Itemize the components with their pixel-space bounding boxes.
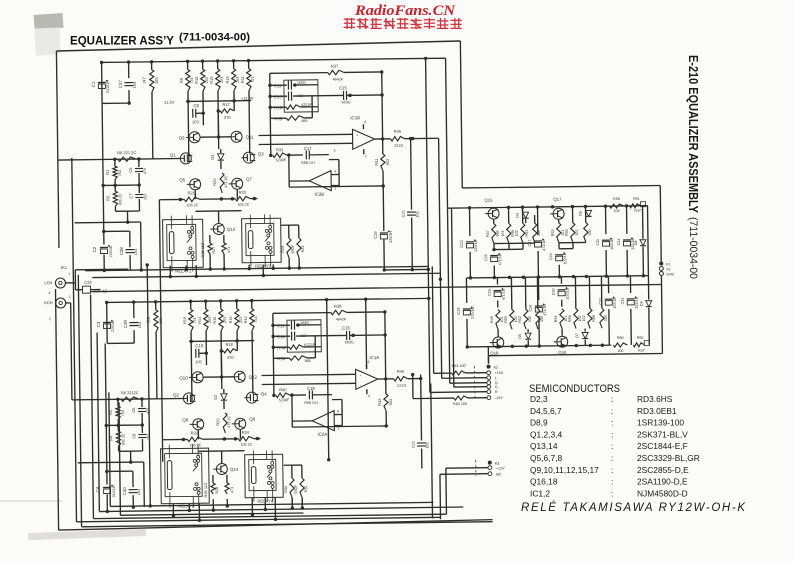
svg-text:Q12: Q12 [249, 375, 258, 380]
svg-text:C13: C13 [274, 94, 282, 99]
svg-text:R23: R23 [239, 190, 247, 195]
svg-text:R63 100: R63 100 [452, 364, 466, 368]
svg-text:RELAY2: RELAY2 [178, 503, 195, 508]
svg-text:C40: C40 [122, 487, 127, 496]
svg-text:-: - [357, 143, 358, 147]
svg-text:Q15: Q15 [484, 198, 493, 203]
svg-text:203: 203 [208, 317, 212, 323]
svg-text:1: 1 [337, 427, 339, 431]
svg-text:C18: C18 [307, 386, 315, 391]
svg-text:Q8: Q8 [249, 417, 255, 422]
svg-text:220/1E: 220/1E [109, 245, 113, 257]
svg-text:969: 969 [496, 230, 500, 236]
svg-text:4642F: 4642F [333, 77, 344, 81]
svg-text::: : [611, 453, 613, 463]
svg-text:R29: R29 [281, 246, 285, 253]
svg-text:C39: C39 [123, 320, 128, 329]
svg-text:R37: R37 [331, 63, 338, 68]
svg-text:R28: R28 [215, 487, 219, 494]
svg-text:+15V: +15V [495, 371, 504, 375]
svg-text:C28: C28 [529, 305, 533, 312]
svg-text:663: 663 [386, 159, 390, 165]
svg-text:102/1E: 102/1E [563, 252, 567, 264]
svg-text:C31: C31 [596, 239, 600, 246]
svg-text:R50: R50 [504, 316, 508, 323]
svg-text:R6 2212C: R6 2212C [121, 390, 139, 395]
svg-text:C19: C19 [373, 231, 378, 239]
svg-text:102/1E: 102/1E [610, 238, 614, 250]
svg-text:663: 663 [389, 399, 393, 405]
svg-text:K221F: K221F [304, 343, 316, 347]
svg-text:C30: C30 [552, 288, 556, 295]
svg-text:203: 203 [239, 317, 243, 323]
svg-text:1: 1 [68, 272, 70, 276]
svg-text:R21: R21 [188, 190, 195, 195]
svg-text:010/1H: 010/1H [112, 485, 116, 497]
svg-text:100: 100 [613, 209, 619, 213]
svg-text:4: 4 [49, 291, 51, 295]
svg-text:330: 330 [540, 316, 544, 322]
svg-text:R22: R22 [191, 430, 198, 435]
svg-text:2SA1190-D,E: 2SA1190-D,E [637, 477, 688, 487]
svg-text:R55: R55 [565, 229, 569, 236]
svg-text:4: 4 [368, 394, 370, 398]
svg-text:104: 104 [138, 322, 142, 328]
svg-text:6: 6 [337, 410, 339, 414]
svg-text:153: 153 [143, 194, 147, 200]
svg-text:6: 6 [364, 120, 366, 124]
svg-text:2SK371-BL,V: 2SK371-BL,V [637, 429, 688, 439]
svg-text:R2: R2 [108, 410, 113, 415]
svg-text:2: 2 [365, 154, 367, 158]
svg-text:105 2C: 105 2C [190, 443, 202, 447]
svg-text:R15: R15 [225, 75, 230, 83]
svg-text::: : [611, 441, 613, 451]
svg-text:471/1E: 471/1E [502, 288, 506, 300]
svg-text:Q3: Q3 [258, 151, 264, 156]
svg-text:MC: MC [496, 473, 502, 477]
svg-text:D9: D9 [640, 301, 644, 306]
svg-text:R47: R47 [638, 349, 645, 353]
svg-text:103: 103 [416, 211, 420, 217]
svg-text:G: G [495, 385, 498, 389]
svg-text:R13: R13 [194, 76, 199, 84]
svg-text:A2: A2 [666, 267, 670, 271]
svg-text:C33: C33 [617, 239, 621, 246]
svg-text:C27: C27 [528, 240, 532, 247]
svg-text:270/1E: 270/1E [471, 306, 475, 318]
svg-text:471/1E: 471/1E [498, 253, 502, 265]
svg-text:R26 113: R26 113 [203, 482, 208, 498]
svg-text:C7: C7 [128, 194, 133, 199]
svg-text:R11: R11 [240, 76, 245, 83]
svg-text:D4: D4 [516, 213, 520, 218]
svg-text:Q16: Q16 [558, 350, 567, 355]
svg-text:D2: D2 [213, 395, 218, 400]
svg-text:751: 751 [193, 317, 197, 323]
svg-text:Q7: Q7 [246, 177, 252, 182]
svg-text:Q18: Q18 [490, 351, 499, 356]
svg-text:Q1,2,3,4: Q1,2,3,4 [530, 429, 562, 439]
svg-text:D7: D7 [575, 333, 579, 338]
svg-text:R16: R16 [229, 316, 233, 323]
svg-text:D2,3: D2,3 [530, 394, 548, 404]
svg-text:RCH: RCH [44, 300, 53, 305]
svg-text:C37: C37 [118, 80, 123, 89]
svg-text:11.3V: 11.3V [164, 100, 174, 105]
svg-text:D8: D8 [634, 240, 638, 245]
svg-text:R60: R60 [617, 336, 624, 340]
svg-text:RD3.0EB1: RD3.0EB1 [637, 406, 677, 416]
svg-text:102/1E: 102/1E [566, 287, 570, 299]
svg-text:R47: R47 [486, 230, 490, 237]
svg-text:Q16,18: Q16,18 [530, 477, 558, 487]
svg-text:K3: K3 [495, 462, 500, 466]
svg-text:103: 103 [195, 359, 202, 364]
svg-text:4221F: 4221F [301, 103, 312, 107]
svg-text:104: 104 [132, 81, 137, 88]
svg-text:471: 471 [230, 487, 234, 493]
svg-text:C38: C38 [119, 247, 124, 256]
svg-text:+: + [357, 133, 359, 137]
svg-text:753: 753 [121, 410, 125, 416]
svg-text:5230F: 5230F [279, 398, 290, 402]
svg-text:470: 470 [143, 168, 147, 174]
svg-text:RELAY3: RELAY3 [255, 263, 272, 268]
svg-text:C34: C34 [621, 298, 625, 305]
svg-text:R27: R27 [212, 247, 216, 254]
svg-text:102: 102 [575, 229, 579, 235]
svg-text:R45: R45 [394, 129, 402, 134]
svg-text:R8: R8 [146, 317, 151, 323]
svg-text:203: 203 [220, 77, 224, 83]
svg-text:8: 8 [367, 360, 369, 364]
svg-text:R34: R34 [277, 345, 285, 350]
svg-text:103: 103 [426, 442, 430, 448]
svg-text:NJM4580D-D: NJM4580D-D [637, 488, 688, 498]
svg-text:R51: R51 [525, 230, 529, 237]
svg-text:RELAY4: RELAY4 [257, 498, 274, 503]
svg-text:D4,5,6,7: D4,5,6,7 [530, 406, 562, 416]
svg-text:R56: R56 [568, 315, 572, 322]
svg-text:(711-0034-00): (711-0034-00) [179, 32, 250, 44]
svg-text:D6: D6 [579, 211, 583, 216]
svg-text:563G: 563G [345, 340, 354, 344]
svg-text:RadioFans.CN: RadioFans.CN [354, 3, 456, 19]
svg-text:C3: C3 [96, 321, 101, 327]
svg-text:IC1,2: IC1,2 [530, 488, 550, 498]
svg-text:R58: R58 [592, 315, 596, 322]
svg-text:C23: C23 [459, 240, 464, 248]
svg-text:C4: C4 [95, 486, 100, 492]
svg-text::: : [611, 465, 613, 475]
svg-text:100: 100 [617, 349, 623, 353]
svg-text:R10: R10 [183, 317, 187, 324]
svg-text:R1: R1 [105, 170, 110, 175]
svg-text:221G: 221G [397, 384, 406, 388]
svg-text:R64 100: R64 100 [453, 402, 467, 406]
svg-text:C21: C21 [401, 210, 406, 217]
svg-text:C10: C10 [195, 343, 204, 348]
svg-text:330: 330 [604, 315, 608, 321]
svg-text:C16: C16 [342, 325, 350, 330]
svg-text:R15: R15 [209, 76, 214, 84]
svg-text::: : [611, 406, 613, 416]
svg-text:384: 384 [304, 359, 310, 363]
svg-text:Q17: Q17 [553, 197, 562, 202]
svg-text:R31: R31 [301, 246, 305, 253]
svg-text:104: 104 [137, 489, 141, 495]
svg-text:Q9,10,11,12,15,17: Q9,10,11,12,15,17 [530, 465, 599, 475]
svg-text:+11.3V: +11.3V [241, 96, 254, 101]
svg-text:C5: C5 [128, 167, 133, 173]
svg-text:R30: R30 [284, 486, 288, 493]
svg-text:GND: GND [666, 272, 674, 276]
svg-text:R35: R35 [274, 116, 282, 121]
svg-text:1: 1 [334, 187, 336, 191]
svg-text:C8: C8 [193, 103, 199, 108]
svg-text:R4: R4 [108, 435, 113, 441]
svg-text:330 /1E: 330 /1E [93, 288, 107, 293]
svg-text:C6: C6 [131, 407, 136, 413]
svg-text:EQUALIZER ASS’Y: EQUALIZER ASS’Y [70, 36, 174, 48]
svg-text:R46: R46 [397, 369, 405, 374]
svg-text:R3: R3 [105, 195, 110, 201]
svg-text:C12: C12 [277, 323, 285, 328]
svg-text:163G: 163G [300, 321, 309, 325]
svg-text:471/1E: 471/1E [543, 304, 547, 316]
svg-text:220/1H: 220/1H [389, 231, 393, 243]
svg-text:C24: C24 [456, 307, 461, 315]
svg-text:R38: R38 [334, 303, 342, 308]
svg-text:470: 470 [146, 408, 150, 414]
svg-text:R33: R33 [276, 147, 284, 152]
svg-text:103: 103 [192, 119, 199, 124]
svg-text:102: 102 [515, 230, 519, 236]
svg-text:751: 751 [254, 316, 258, 322]
svg-text:Q5: Q5 [179, 177, 185, 182]
svg-text:R68 /1H: R68 /1H [301, 161, 315, 165]
svg-text:R: R [495, 390, 498, 394]
svg-text:C26: C26 [488, 289, 492, 296]
svg-text:1SR139-100: 1SR139-100 [637, 418, 684, 428]
svg-text::: : [611, 394, 613, 404]
svg-text:K1: K1 [666, 262, 670, 266]
svg-text:Q13,14: Q13,14 [530, 441, 558, 451]
svg-text:L: L [495, 376, 497, 380]
svg-text:R18: R18 [226, 342, 234, 347]
svg-text:C11: C11 [274, 83, 282, 88]
svg-text:155: 155 [159, 318, 163, 324]
svg-text:R39: R39 [274, 105, 282, 110]
svg-text::: : [611, 429, 613, 439]
svg-text:R36: R36 [277, 356, 285, 361]
svg-text:R16: R16 [213, 317, 217, 324]
svg-text:E-210 EQUALIZER ASSEMBLY: E-210 EQUALIZER ASSEMBLY [686, 55, 701, 213]
svg-text:101: 101 [501, 230, 505, 236]
svg-text:330: 330 [528, 316, 532, 322]
svg-text:4: 4 [334, 170, 336, 174]
svg-text:C1: C1 [91, 81, 96, 87]
svg-text:220/1E: 220/1E [111, 320, 115, 332]
svg-text:Q4: Q4 [261, 391, 267, 396]
svg-text:R14: R14 [198, 317, 202, 324]
svg-text:220/1E: 220/1E [474, 239, 478, 251]
svg-text:D5: D5 [518, 334, 522, 339]
svg-text:751: 751 [251, 76, 255, 82]
svg-text:R62: R62 [637, 336, 644, 340]
svg-text:R9: R9 [179, 77, 184, 83]
svg-text:5230F: 5230F [276, 158, 287, 162]
svg-text:RELAY1: RELAY1 [175, 268, 192, 273]
svg-text::: : [611, 477, 613, 487]
svg-text::: : [611, 418, 613, 428]
svg-text:R48: R48 [490, 316, 494, 323]
svg-text:C15: C15 [339, 85, 347, 90]
svg-text:152: 152 [300, 334, 306, 338]
svg-text:Q13: Q13 [227, 227, 236, 232]
svg-text:Q6: Q6 [182, 417, 188, 422]
svg-text:Q14: Q14 [230, 467, 239, 472]
svg-text::: : [611, 488, 613, 498]
svg-text:-: - [360, 383, 361, 387]
svg-text:270: 270 [224, 115, 231, 120]
svg-text:R61: R61 [633, 197, 640, 201]
svg-text:C25: C25 [484, 254, 488, 261]
svg-text:C14: C14 [277, 334, 285, 339]
svg-text:C29: C29 [549, 253, 553, 260]
svg-text:R47: R47 [634, 209, 641, 213]
svg-text:R42: R42 [377, 398, 382, 405]
svg-text:270: 270 [227, 355, 234, 360]
svg-text:IC1A: IC1A [369, 355, 379, 360]
svg-text:104: 104 [134, 249, 138, 255]
svg-text:105 2C: 105 2C [241, 443, 253, 447]
svg-text:5R2F: 5R2F [291, 244, 295, 254]
svg-text:R8 221 2C: R8 221 2C [117, 150, 136, 155]
svg-text:102/1E: 102/1E [613, 297, 617, 309]
svg-text:2SC2855-D,E: 2SC2855-D,E [637, 465, 689, 475]
svg-text:RD3.6HS: RD3.6HS [637, 394, 673, 404]
svg-text:105 2C: 105 2C [237, 203, 249, 207]
svg-text:332/1E: 332/1E [635, 296, 639, 308]
svg-text:152: 152 [297, 94, 303, 98]
svg-text:(711-0034-00: (711-0034-00 [687, 217, 699, 279]
svg-text:5R2F: 5R2F [294, 484, 298, 494]
svg-text:Q9: Q9 [179, 135, 185, 140]
svg-text:R24: R24 [242, 430, 250, 435]
svg-text:471/1E: 471/1E [542, 239, 546, 251]
svg-text:IC2B: IC2B [314, 192, 324, 197]
svg-text:+: + [360, 373, 362, 377]
svg-text:753: 753 [118, 170, 122, 176]
svg-text:R25 113: R25 113 [200, 242, 205, 258]
svg-text:-15V: -15V [495, 396, 503, 400]
svg-text:901 2C: 901 2C [118, 193, 122, 205]
svg-text:D8,9: D8,9 [530, 418, 548, 428]
svg-text:221G: 221G [394, 144, 403, 148]
svg-text:R7: R7 [142, 77, 147, 83]
svg-text:R32: R32 [304, 486, 308, 493]
svg-text:R12: R12 [244, 316, 248, 323]
svg-text:JK1: JK1 [60, 265, 67, 270]
svg-text:Q5,6,7,8: Q5,6,7,8 [530, 453, 562, 463]
svg-text:R40: R40 [279, 387, 287, 392]
svg-text:Q11: Q11 [246, 135, 255, 140]
svg-text:384: 384 [301, 119, 307, 123]
svg-text:330: 330 [588, 229, 592, 235]
svg-text:901 2C: 901 2C [121, 433, 125, 445]
svg-text:330: 330 [537, 230, 541, 236]
svg-text:K2: K2 [494, 366, 499, 370]
svg-text:+12V: +12V [496, 466, 505, 470]
svg-text:D3: D3 [210, 154, 215, 160]
svg-text:RELÉ TAKAMISAWA RY12W-OH-K: RELÉ TAKAMISAWA RY12W-OH-K [521, 501, 746, 514]
svg-text:471: 471 [227, 247, 231, 253]
svg-text:2SC1844-E,F: 2SC1844-E,F [637, 441, 688, 451]
svg-text:IC1B: IC1B [350, 115, 360, 120]
svg-text:IC2A: IC2A [317, 432, 327, 437]
svg-text:203: 203 [223, 317, 227, 323]
svg-text:R54: R54 [554, 315, 558, 322]
svg-text:C8: C8 [131, 433, 136, 439]
svg-text:3: 3 [69, 295, 71, 299]
svg-text:C32: C32 [599, 298, 603, 305]
svg-text:155: 155 [154, 77, 159, 84]
svg-text:R20: R20 [215, 418, 220, 426]
svg-text:C2: C2 [92, 246, 97, 252]
svg-text:2SC3329-BL,GR: 2SC3329-BL,GR [637, 453, 700, 463]
svg-text:165G: 165G [297, 81, 306, 85]
svg-text:Q2: Q2 [173, 393, 179, 398]
svg-text:R68 /1H: R68 /1H [304, 401, 318, 405]
svg-text:471 2C: 471 2C [227, 416, 231, 428]
svg-text:2: 2 [334, 149, 336, 153]
svg-text:R20: R20 [212, 178, 217, 186]
svg-text:153: 153 [146, 434, 150, 440]
svg-text:102: 102 [582, 315, 586, 321]
svg-text:563G: 563G [342, 100, 351, 104]
svg-text:R41: R41 [374, 158, 379, 165]
svg-text:C17: C17 [304, 146, 312, 151]
svg-text:R53: R53 [551, 229, 555, 236]
svg-text:105 2C: 105 2C [186, 203, 198, 207]
svg-text:Q10: Q10 [179, 375, 188, 380]
svg-text:471 2C: 471 2C [224, 176, 228, 188]
svg-text:2: 2 [49, 317, 51, 321]
svg-text:R17: R17 [222, 102, 229, 107]
svg-text:R58: R58 [613, 197, 620, 201]
svg-text:C22: C22 [412, 441, 416, 448]
svg-text:C35: C35 [84, 280, 92, 285]
svg-text:R52: R52 [518, 316, 522, 323]
svg-text:4642F: 4642F [336, 317, 347, 321]
svg-text:Q1: Q1 [170, 153, 176, 158]
svg-text:013/1H: 013/1H [105, 80, 110, 93]
svg-text:LCH: LCH [44, 280, 52, 285]
